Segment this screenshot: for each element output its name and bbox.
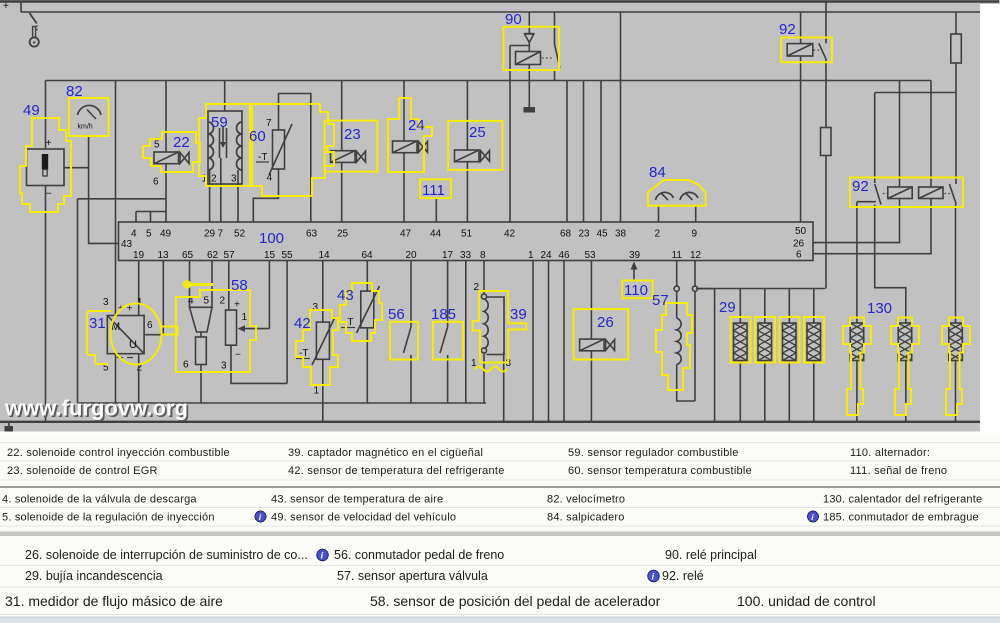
wire glow plug bus Rp: [696, 288, 825, 290]
label 23: [344, 126, 361, 143]
label 42: [294, 315, 311, 332]
wire 31 pin6 stub: [145, 334, 163, 336]
svg-text:29. bujía incandescencia: 29. bujía incandescencia: [25, 569, 163, 583]
svg-text:4: 4: [267, 173, 273, 184]
pin 3 of 42: [313, 302, 319, 313]
wire ECU pin 12 to connector: [694, 261, 696, 287]
watermark www.furgovw.org: [4, 396, 190, 423]
svg-text:22. solenoide control inyecció: 22. solenoide control inyección combusti…: [7, 447, 230, 459]
svg-text:13: 13: [158, 250, 170, 261]
label 49: [23, 102, 40, 119]
svg-text:km/h: km/h: [78, 124, 93, 131]
fuel temperature sensor 60 thermistor: [269, 124, 292, 175]
wire 49 to ground bus: [45, 186, 47, 422]
yellow outline 130-3: [942, 318, 970, 416]
pin 3 of 59: [231, 174, 237, 185]
pin 2 of 58: [220, 296, 226, 307]
relay 92 right switch right: [945, 184, 957, 205]
relay 92 top coil: [787, 12, 813, 56]
svg-text:24: 24: [541, 250, 553, 261]
label 110: [624, 282, 648, 299]
wire ECU pin 17 to switch 185: [447, 261, 449, 328]
svg-text:29: 29: [719, 299, 736, 316]
svg-text:130. calentador del refrigeran: 130. calentador del refrigerante: [823, 494, 982, 506]
legend background and separators: [0, 433, 1000, 623]
svg-text:49: 49: [23, 102, 40, 119]
pin - of 58 pot: [235, 350, 241, 361]
glow plug 29-2: [758, 289, 772, 422]
svg-text:63: 63: [306, 229, 318, 240]
yellow outline 82: [69, 98, 109, 136]
wiper arrow of 58: [238, 325, 270, 332]
svg-text:26. solenoide de interrupción: 26. solenoide de interrupción de suminis…: [25, 548, 308, 562]
wire R2 to ECU pin 38: [620, 12, 622, 222]
svg-text:1: 1: [314, 386, 320, 397]
fuse F1: [951, 34, 962, 63]
svg-text:49. sensor de velocidad del ve: 49. sensor de velocidad del vehículo: [271, 512, 456, 524]
svg-text:23: 23: [579, 229, 591, 240]
info icon 56: [317, 549, 329, 561]
pin 4 of 58: [188, 296, 194, 307]
svg-text:22: 22: [173, 134, 190, 151]
svg-text:5: 5: [146, 229, 152, 240]
label -T of 42: [296, 348, 310, 359]
svg-text:62: 62: [207, 250, 219, 261]
wire R3 down to solenoid 22: [165, 81, 167, 153]
dashboard 84 gauges: [656, 192, 699, 200]
yellow outline 57: [656, 303, 692, 390]
svg-text:57: 57: [652, 292, 669, 309]
wire R3 to solenoid 23: [341, 81, 343, 151]
wire R3 end to coil K2 top: [930, 81, 932, 188]
svg-text:130: 130: [867, 300, 892, 317]
pin 6 of 22: [153, 177, 159, 188]
ECU top pin numbers: [131, 226, 807, 240]
yellow outline 185: [433, 322, 463, 360]
svg-text:185: 185: [431, 306, 456, 323]
wire R3 to transformer 59: [224, 81, 226, 112]
wire ECU pin 13 to 31 pin 6: [162, 261, 164, 335]
pin 1 of 39: [471, 358, 477, 369]
coolant heater 130-1: [850, 323, 864, 422]
wire 60 pin4 to ECU: [253, 169, 278, 222]
yellow outline 130-2: [891, 318, 919, 416]
svg-text:110: 110: [624, 282, 648, 299]
yellow outline 84: [648, 180, 706, 206]
legend row 3: [2, 494, 982, 506]
svg-text:www.furgovw.org: www.furgovw.org: [4, 396, 188, 421]
svg-text:56. conmutador pedal de freno: 56. conmutador pedal de freno: [334, 548, 504, 562]
wire ground sub-bus Rb1: [78, 402, 487, 404]
label 29: [719, 299, 736, 316]
pin 2 of 31: [137, 363, 143, 374]
sensor 49 speed sensor: [27, 149, 65, 186]
wire bus rail R3: [46, 80, 932, 82]
ECU box 100 unidad de control: [119, 222, 814, 261]
yellow outline 92 top: [781, 38, 832, 63]
label 130: [867, 300, 892, 317]
yellow outline 90: [504, 27, 560, 70]
svg-text:90. relé principal: 90. relé principal: [665, 548, 757, 562]
svg-text:43: 43: [337, 287, 354, 304]
svg-text:185. conmutador de embrague: 185. conmutador de embrague: [823, 512, 979, 524]
yellow outline 42: [296, 310, 338, 385]
wire top supply rail R1: [0, 0, 999, 3]
pin 1 of 31: [137, 297, 143, 308]
wire 49 right terminal to node A: [64, 167, 89, 169]
fuel cutoff solenoid 26: [580, 339, 615, 351]
pin 2 of 39: [474, 282, 480, 293]
svg-text:17: 17: [442, 250, 454, 261]
yellow outline 43: [340, 283, 382, 341]
svg-text:12: 12: [690, 250, 702, 261]
pin 7 of 60: [266, 118, 272, 129]
label 92 top: [779, 21, 796, 38]
svg-text:7: 7: [266, 118, 272, 129]
label 60: [249, 128, 266, 145]
yellow outline 23: [325, 121, 378, 172]
wire 22 pin6 to ECU pin 49 with tee: [78, 164, 167, 403]
pin 6 of 58: [183, 360, 189, 371]
svg-text:52: 52: [234, 229, 246, 240]
svg-text:55: 55: [282, 250, 294, 261]
legend row 6: [25, 569, 704, 583]
wire 57 bottom loop to pin 12 wire: [677, 291, 695, 401]
svg-text:39: 39: [629, 250, 641, 261]
svg-text:6: 6: [147, 320, 153, 331]
wire 92 right switch to heater 130-3: [955, 205, 957, 324]
wire 39 shield loop: [487, 297, 505, 355]
yellow outline 110: [622, 281, 653, 299]
label 56: [388, 306, 405, 323]
svg-text:43: 43: [121, 239, 133, 250]
pin 2 of 59: [211, 174, 217, 185]
svg-text:31: 31: [89, 315, 106, 332]
coolant heater 130-3: [949, 323, 963, 422]
yellow outline 111: [420, 179, 451, 198]
air temperature sensor 43 thermistor: [357, 286, 380, 333]
pin 3 of 31: [103, 297, 109, 308]
svg-text:100: 100: [259, 230, 284, 247]
yellow outline 130-1: [843, 318, 871, 416]
wire R2 to fuse F1: [955, 12, 957, 34]
relay 92 right coil K1: [888, 187, 912, 199]
label 111: [422, 182, 445, 199]
wire fuse F2 to glow plug bus: [825, 156, 827, 289]
crankshaft magnetic sensor 39 coil: [481, 294, 488, 353]
yellow outline 26: [574, 309, 629, 359]
wire ECU pin 11 to connector: [676, 261, 678, 287]
svg-text:6: 6: [183, 360, 189, 371]
clutch switch 185: [440, 327, 448, 403]
svg-text:29: 29: [204, 229, 216, 240]
label 84: [649, 164, 666, 181]
schematic gray background: [0, 0, 1000, 432]
info icon 185: [808, 511, 819, 522]
svg-text:24: 24: [408, 117, 425, 134]
svg-text:92: 92: [779, 21, 796, 38]
svg-text:2: 2: [211, 174, 217, 185]
wire 84 to ECU pins 2 and 9: [659, 206, 696, 222]
wire 90 coil left loop to ECU pin 42: [510, 46, 529, 223]
svg-text:59. sensor regulador combustib: 59. sensor regulador combustible: [568, 447, 739, 459]
relay 90 coil: [516, 43, 541, 65]
pin 4 of 60: [267, 173, 273, 184]
svg-text:58: 58: [231, 277, 248, 294]
wire 42 to bottom bus: [322, 359, 324, 422]
wire 39 pin3 to bottom bus: [503, 352, 505, 422]
wire 59 pins to ECU pins 29 7 52: [210, 158, 238, 222]
svg-text:3: 3: [221, 361, 227, 372]
svg-text:43. sensor de temperatura de a: 43. sensor de temperatura de aire: [271, 494, 443, 506]
svg-text:42: 42: [294, 315, 311, 332]
svg-text:1: 1: [528, 250, 534, 261]
pedal sensor 58 resistor: [196, 332, 207, 365]
svg-text:7: 7: [218, 229, 224, 240]
svg-text:53: 53: [585, 250, 597, 261]
svg-text:1: 1: [137, 297, 143, 308]
legend row 7: [5, 593, 876, 609]
legend row 2: [7, 465, 947, 477]
svg-text:44: 44: [430, 229, 442, 240]
wire ECU pin 19 to 31: [138, 261, 140, 316]
svg-text:11: 11: [672, 250, 683, 261]
label 26: [597, 314, 614, 331]
svg-text:38: 38: [615, 229, 627, 240]
wire R3 down to airflow meter 31 pin 3: [115, 81, 117, 316]
wire connector 12 to bottom bus: [698, 289, 715, 422]
wire 26 to bottom bus: [590, 351, 592, 422]
yellow outline 31: [87, 304, 178, 365]
yellow outline 56: [390, 322, 418, 360]
wire ECU pin 33 to ground sub-bus: [465, 261, 467, 404]
svg-text:50: 50: [795, 226, 807, 237]
wire bottom ground bus Rb2: [0, 421, 980, 423]
svg-text:82: 82: [66, 83, 83, 100]
svg-text:14: 14: [319, 250, 331, 261]
svg-text:8: 8: [480, 250, 486, 261]
label 90: [505, 11, 522, 28]
svg-text:25: 25: [337, 229, 349, 240]
wire R3 to coil K1 top: [899, 81, 901, 188]
svg-text:84: 84: [649, 164, 666, 181]
solenoid valve 25 injection regulation: [455, 150, 490, 162]
svg-text:42: 42: [504, 229, 516, 240]
pin 3 of 39: [506, 358, 512, 369]
yellow outline 29: [731, 317, 825, 363]
airflow meter 31: [107, 304, 144, 358]
label 185: [431, 306, 456, 323]
connector on pin 11: [674, 286, 679, 291]
label 57: [652, 292, 669, 309]
svg-text:20: 20: [406, 250, 418, 261]
svg-text:4. solenoide de la válvula de: 4. solenoide de la válvula de descarga: [2, 494, 197, 506]
svg-text:23: 23: [344, 126, 361, 143]
legend row 4: [2, 512, 979, 524]
pin 1 of 58 pot: [242, 312, 248, 323]
svg-text:23. solenoide de control EGR: 23. solenoide de control EGR: [7, 465, 158, 477]
yellow outline 22: [143, 132, 200, 172]
svg-text:49: 49: [160, 229, 172, 240]
fuse F2: [821, 128, 832, 156]
svg-text:5: 5: [204, 296, 210, 307]
relay 90 switch: [542, 12, 560, 81]
wire 43 to ground sub-bus: [366, 328, 368, 403]
svg-text:64: 64: [362, 250, 374, 261]
pin 5 of 31: [103, 363, 109, 374]
pin 5 of 22: [154, 140, 160, 151]
solenoid valve 22: [154, 152, 189, 164]
svg-text:i: i: [811, 512, 814, 522]
svg-text:2: 2: [655, 229, 661, 240]
label 58: [231, 277, 248, 294]
info icon 49: [255, 511, 266, 522]
label 25: [469, 124, 486, 141]
wire 92 left switch blade to heater 130-2: [875, 205, 906, 324]
wire R3 to solenoid 24: [403, 81, 405, 142]
wire ECU pin 20 to switch 56: [410, 261, 412, 328]
svg-text:92. relé: 92. relé: [662, 569, 704, 583]
svg-text:65: 65: [182, 250, 194, 261]
wire 24 to ECU pin 47: [403, 153, 405, 222]
info icon 92: [648, 570, 660, 582]
yellow outline 60: [252, 104, 334, 196]
svg-text:3: 3: [103, 297, 109, 308]
svg-text:56: 56: [388, 306, 405, 323]
yellow outline 24: [388, 98, 432, 172]
wire brake signal 111 to ECU pin 44: [435, 198, 437, 222]
label 100: [259, 230, 284, 247]
glow plug 29-1: [734, 289, 748, 422]
glow plug 29-3: [783, 289, 797, 422]
svg-text:33: 33: [460, 250, 472, 261]
svg-text:57. sensor apertura válvula: 57. sensor apertura válvula: [337, 569, 488, 583]
svg-text:111. señal de freno: 111. señal de freno: [850, 465, 947, 477]
svg-text:26: 26: [597, 314, 614, 331]
svg-text:57: 57: [224, 250, 236, 261]
wire 25 to ECU pin 51: [466, 162, 468, 222]
yellow outline 92 right: [850, 178, 963, 208]
svg-text:60: 60: [249, 128, 266, 145]
wire ECU pin 24 to bottom bus: [548, 261, 550, 422]
wire ignition rail R2: [21, 2, 980, 13]
svg-text:4: 4: [131, 229, 137, 240]
wire ECU pin 1 to bottom bus: [532, 261, 534, 422]
svg-text:45: 45: [597, 229, 609, 240]
solenoid valve 24 wastegate: [393, 141, 428, 153]
pin 43 ECU left: [121, 239, 133, 250]
label 92 right: [852, 178, 869, 195]
pin + of 49: [46, 138, 52, 149]
yellow outline 25: [448, 121, 502, 170]
coolant temperature sensor 42 thermistor: [312, 317, 335, 365]
ECU bottom pin numbers: [133, 239, 805, 262]
pin 3 of 58 pot: [221, 361, 227, 372]
label 22: [173, 134, 190, 151]
wire 90 coil to ground: [528, 65, 530, 108]
label 82: [66, 83, 83, 100]
wire R3 to sensor 49: [45, 81, 47, 150]
wire 31 pins 5 2 to ground sub-bus: [116, 354, 139, 403]
pedal sensor 58 potentiometer: [226, 310, 237, 345]
svg-text:−: −: [235, 350, 241, 361]
wire 39 pin1 to ground sub-bus: [483, 353, 485, 403]
wire 82 down through node A to ECU pin 43: [89, 136, 119, 243]
svg-text:68: 68: [560, 229, 572, 240]
legend row 1: [7, 447, 930, 459]
svg-text:51: 51: [461, 229, 473, 240]
label 39: [510, 306, 527, 323]
pin 6 of 31: [147, 320, 153, 331]
svg-text:110. alternador:: 110. alternador:: [850, 447, 930, 459]
alternator 110 arrow to ECU pin 39: [631, 262, 638, 281]
svg-text:6: 6: [796, 250, 802, 261]
svg-text:15: 15: [264, 250, 276, 261]
wire F1 down with tee at y92: [875, 63, 956, 184]
yellow outline 39: [473, 291, 527, 372]
svg-text:46: 46: [559, 250, 571, 261]
svg-text:i: i: [259, 512, 262, 522]
wire ECU pin 14 to sensor 42: [322, 261, 324, 323]
pin 1 of 42: [314, 386, 320, 397]
wire R3 to solenoid 25: [466, 81, 468, 151]
relay 90 diode: [525, 12, 534, 43]
wire coil K1 bottom to ECU pin 26: [813, 199, 900, 243]
wire 23 to ECU pin 25: [341, 162, 343, 222]
svg-text:31. medidor de flujo másico de: 31. medidor de flujo másico de aire: [5, 593, 223, 609]
svg-text:60. sensor temperatura combust: 60. sensor temperatura combustible: [568, 465, 752, 477]
svg-text:3: 3: [313, 302, 319, 313]
pin 5 of 58: [204, 296, 210, 307]
coolant heater 130-2: [898, 323, 912, 422]
solenoid valve 23 EGR: [331, 151, 366, 163]
svg-text:82. velocímetro: 82. velocímetro: [547, 494, 625, 506]
label 31: [89, 315, 106, 332]
svg-text:U: U: [129, 339, 137, 351]
pin + of 58 pot: [234, 300, 240, 311]
yellow outline 58: [176, 281, 256, 372]
svg-text:39: 39: [510, 306, 527, 323]
svg-text:6: 6: [153, 177, 159, 188]
relay 92 right coil K2: [919, 187, 943, 199]
wire 58 resistor to ground sub-bus: [200, 365, 202, 404]
relay 92 top switch: [814, 2, 827, 128]
svg-text:90: 90: [505, 11, 522, 28]
wire ECU pin 57 to 58 potentiometer: [228, 261, 230, 311]
svg-text:+: +: [234, 300, 240, 311]
svg-text:+: +: [46, 138, 52, 149]
label 59: [211, 114, 228, 131]
valve opening sensor 57 coil: [677, 318, 681, 364]
label 24: [408, 117, 425, 134]
label -T of 60: [256, 152, 269, 163]
yellow outline 49: [20, 118, 71, 212]
svg-text:26: 26: [793, 239, 805, 250]
wire ECU pin 64 to sensor 43: [366, 261, 368, 292]
svg-text:−: −: [46, 189, 52, 200]
wire ECU pin 65 to 58: [189, 261, 191, 308]
svg-text:9: 9: [692, 229, 698, 240]
wire ECU pin 8 to crank sensor 39: [483, 261, 485, 295]
svg-text:59: 59: [211, 114, 228, 131]
svg-text:42. sensor de temperatura del: 42. sensor de temperatura del refrigeran…: [288, 465, 505, 477]
wire R3 stubs to ECU pins 68 23 45: [567, 81, 601, 223]
connector on pin 12: [692, 286, 697, 291]
ground of relay 90: [524, 107, 536, 113]
svg-text:3: 3: [231, 174, 237, 185]
svg-text:100. unidad de control: 100. unidad de control: [737, 593, 876, 609]
wire connector to valve sensor 57: [676, 291, 678, 318]
